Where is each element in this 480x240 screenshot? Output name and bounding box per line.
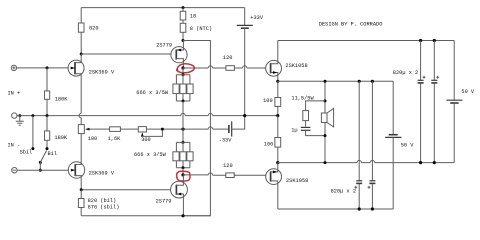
transistor Q3 2S779 (upper driver) [156,41,187,69]
wire Sbil branch [20,116,35,156]
svg-text:100: 100 [88,136,98,142]
svg-text:100: 100 [263,98,273,104]
terminal IN+ [8,65,21,96]
terminal ground [12,113,24,125]
wire upper source line y=81.3 [278,80,393,82]
svg-text:50 V: 50 V [461,89,475,95]
MOSFET Q5 2SK1058 (upper) [266,41,308,82]
svg-text:120: 120 [223,163,233,169]
wire feedback line y=129 [89,127,229,131]
resistor 120 (upper) [223,55,235,70]
node upper source [276,80,279,83]
svg-text:Bil: Bil [48,151,58,157]
svg-text:120: 120 [223,55,233,61]
svg-text:Sbil: Sbil [20,149,33,155]
resistor 1,6K [108,127,122,142]
svg-text:IN -: IN - [8,142,21,148]
wire bottom rail right y=209 [278,208,393,210]
svg-text:820µ x 2: 820µ x 2 [331,188,356,194]
wire ground line [17,113,278,117]
wire output column [182,101,184,142]
svg-text:IN +: IN + [8,90,21,96]
resistor 180K (lower, Bil branch) [45,116,68,157]
capacitor C 820u d (lower pair) [331,80,376,211]
MOSFET Q6 2SK1058 (lower) [266,163,309,209]
svg-text:-33V: -33V [219,137,233,143]
node output upper (red circled) [176,64,194,73]
svg-text:2SK1058: 2SK1058 [285,63,307,69]
wire emitter rail link [183,41,210,216]
svg-text:11,5/5W: 11,5/5W [291,96,314,102]
battery 50V (right) [446,41,475,163]
svg-text:+33V: +33V [250,15,264,21]
svg-text:820µ x 2: 820µ x 2 [393,70,418,76]
battery +33V [237,8,264,118]
svg-text:2S779: 2S779 [156,42,172,48]
JFET Q2 2SK369 (lower) [68,155,115,190]
trimmer 100 (source balance) [78,90,97,155]
resistor 8 NTC [180,23,212,42]
svg-text:1µ: 1µ [291,127,297,133]
resistor 100 (upper, to gnd) [263,81,281,117]
svg-text:18: 18 [190,14,196,20]
wire lower base line [80,188,171,191]
resistor R 820 (JFET drain load) [78,8,98,54]
svg-text:300: 300 [141,137,151,143]
wire lower gate line y=175.2 [183,173,271,175]
trimmer 300 [138,127,162,143]
wire upper gate line y=68 [183,66,271,68]
svg-text:1,6K: 1,6K [108,136,122,142]
capacitor C 820u a (upper pair) [418,39,426,164]
resistor trio 666 x 3/5W (lower) [134,141,193,175]
resistor 820 bil [78,190,119,216]
JFET Q1 2SK369 (upper) [68,54,115,90]
wire top +33V rail [81,7,245,9]
svg-text:666 x 3/5W: 666 x 3/5W [136,90,169,96]
svg-text:2SK369 V: 2SK369 V [89,170,115,176]
wire IN- gate line [17,169,68,171]
capacitor C 820u c (lower pair) [354,80,362,211]
resistor trio 666 x 3/5W (upper) [136,68,193,103]
svg-text:50 V: 50 V [401,142,415,148]
svg-text:8 (NTC): 8 (NTC) [190,26,212,32]
resistor 18 [180,6,196,23]
wire IN+ gate line [17,66,69,69]
svg-text:DESIGN BY F. CORRADO: DESIGN BY F. CORRADO [319,22,383,28]
svg-text:2SK1058: 2SK1058 [286,178,308,184]
svg-text:820 (bil): 820 (bil) [88,198,117,204]
svg-text:876 (sbil): 876 (sbil) [88,205,120,211]
switch bil/sbil [39,151,47,172]
svg-text:2SK369 V: 2SK369 V [89,69,115,75]
svg-text:820: 820 [89,25,99,31]
transistor Q4 2S779 (lower driver) [156,175,188,216]
speaker [321,80,333,164]
resistor 11,5/5W (zobel) [291,96,326,127]
svg-text:180K: 180K [54,135,68,141]
terminal IN- [8,142,21,173]
svg-text:2S779: 2S779 [156,198,172,204]
svg-text:666 x 3/5W: 666 x 3/5W [134,152,167,158]
capacitor C 820u b (upper pair) [393,39,439,164]
svg-text:180K: 180K [55,97,69,103]
resistor 100 (lower, to gnd) [264,116,281,165]
node A (JFET drain / driver base) [80,53,171,56]
wire lower source line y=162.6 [278,160,454,162]
wire bottom rail left [81,214,210,217]
svg-text:100: 100 [264,142,274,148]
battery -33V [219,116,245,144]
resistor 180K (upper, IN+ to gnd) [45,68,69,116]
resistor 120 (lower) [223,163,234,177]
title DESIGN BY F. CORRADO [319,22,383,28]
capacitor 1u (zobel) [291,127,326,137]
wire top rail right [278,40,454,42]
node output lower (red circled) [177,171,190,181]
battery 50V (mid) [385,81,414,209]
